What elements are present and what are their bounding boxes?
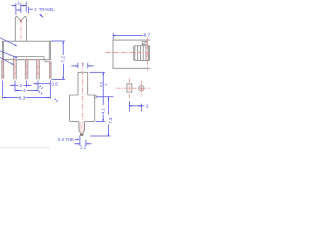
svg-text:4.5: 4.5 <box>100 82 104 87</box>
note "2 TRAVEL" bracket <box>29 7 33 14</box>
right mounting lug <box>50 61 52 80</box>
dimension 8.3 (body width) <box>3 81 58 102</box>
pin 3 (front) <box>37 58 40 79</box>
dimension 4 (outer pin span) <box>15 90 42 94</box>
hole center dot <box>141 87 143 89</box>
top view knob (hatched) <box>134 46 150 61</box>
body bottom slot seam <box>14 57 44 60</box>
actuator knob (front view, M-shaped top) <box>15 16 26 41</box>
svg-text:8.7: 8.7 <box>144 32 150 38</box>
dimension 7.2 (vertical, front) <box>51 41 65 80</box>
side view corner circle detail <box>94 96 96 98</box>
drawing frame border (faint, bottom left) <box>0 147 50 149</box>
body (front view) <box>2 41 50 60</box>
pad crosshair vertical (red) <box>128 78 130 99</box>
svg-text:2 TRAVEL: 2 TRAVEL <box>34 7 55 12</box>
dimension 4.1 (vertical, side) <box>90 72 106 121</box>
svg-text:4: 4 <box>104 84 108 86</box>
top view vertical centerline (red) <box>146 37 148 70</box>
svg-text:7.2: 7.2 <box>61 56 67 63</box>
dimension 8.7 (top view width) <box>113 33 143 40</box>
svg-text:0.3 THK: 0.3 THK <box>58 137 74 142</box>
dimension 2 (pad to hole) <box>129 101 144 111</box>
leader diagonal 2 <box>0 51 17 58</box>
svg-text:1.2: 1.2 <box>80 145 87 150</box>
pin 2 (front) <box>25 58 28 79</box>
note leader arrowhead <box>40 14 43 17</box>
side view width dimension 2 <box>71 63 94 69</box>
side view pin tip dot <box>81 134 83 136</box>
svg-text:2: 2 <box>146 104 149 110</box>
svg-text:7.3: 7.3 <box>108 117 113 124</box>
side view pin fill <box>79 121 85 135</box>
travel dimension "2" arrows <box>11 5 15 7</box>
dimension 1.2 (pin width) <box>74 135 91 146</box>
leader diagonal 3 <box>0 58 14 65</box>
leader diagonal 1 <box>0 38 17 46</box>
svg-text:4: 4 <box>23 88 26 94</box>
top view body outline <box>113 40 150 68</box>
hole circle <box>139 86 144 91</box>
actuator centerline (red) <box>20 20 22 42</box>
pin 1 (front) <box>14 58 17 79</box>
top view horizontal centerline (red) <box>106 52 150 54</box>
pad rectangle <box>127 84 132 92</box>
side view centerline (red) <box>81 62 83 130</box>
hole crosshair vertical (red) <box>140 81 142 97</box>
svg-text:8.3: 8.3 <box>19 95 26 101</box>
svg-text:3.5: 3.5 <box>51 82 58 88</box>
svg-text:4.1: 4.1 <box>100 108 105 115</box>
dimension 3.5 (pin3 to lug) <box>33 81 50 92</box>
svg-text:2: 2 <box>17 1 20 7</box>
top view corner flag detail <box>142 41 147 44</box>
side view actuator <box>78 72 88 95</box>
dimension 7.3 (vertical, side) <box>90 97 114 136</box>
left mounting lug <box>2 60 4 79</box>
svg-text:2: 2 <box>19 83 22 89</box>
travel dimension "2" extension lines <box>16 2 26 15</box>
note 0.3 THK leader arrow <box>75 138 79 140</box>
dimension 2 (pin pitch) <box>10 81 32 92</box>
side view body outline <box>70 95 95 136</box>
body bottom-right step <box>45 60 51 62</box>
pad crosshair horizontal (red) <box>117 87 150 89</box>
